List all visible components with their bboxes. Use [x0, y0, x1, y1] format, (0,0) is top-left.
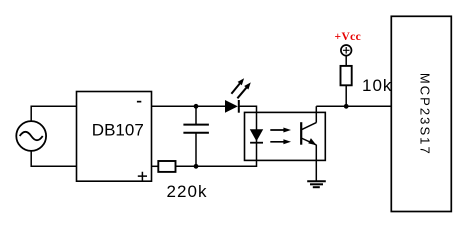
svg-text:+Vcc: +Vcc	[335, 31, 362, 43]
svg-text:MCP23S17: MCP23S17	[418, 73, 433, 156]
svg-text:DB107: DB107	[92, 120, 144, 139]
svg-text:220k: 220k	[167, 182, 208, 201]
svg-text:10k: 10k	[362, 76, 392, 95]
